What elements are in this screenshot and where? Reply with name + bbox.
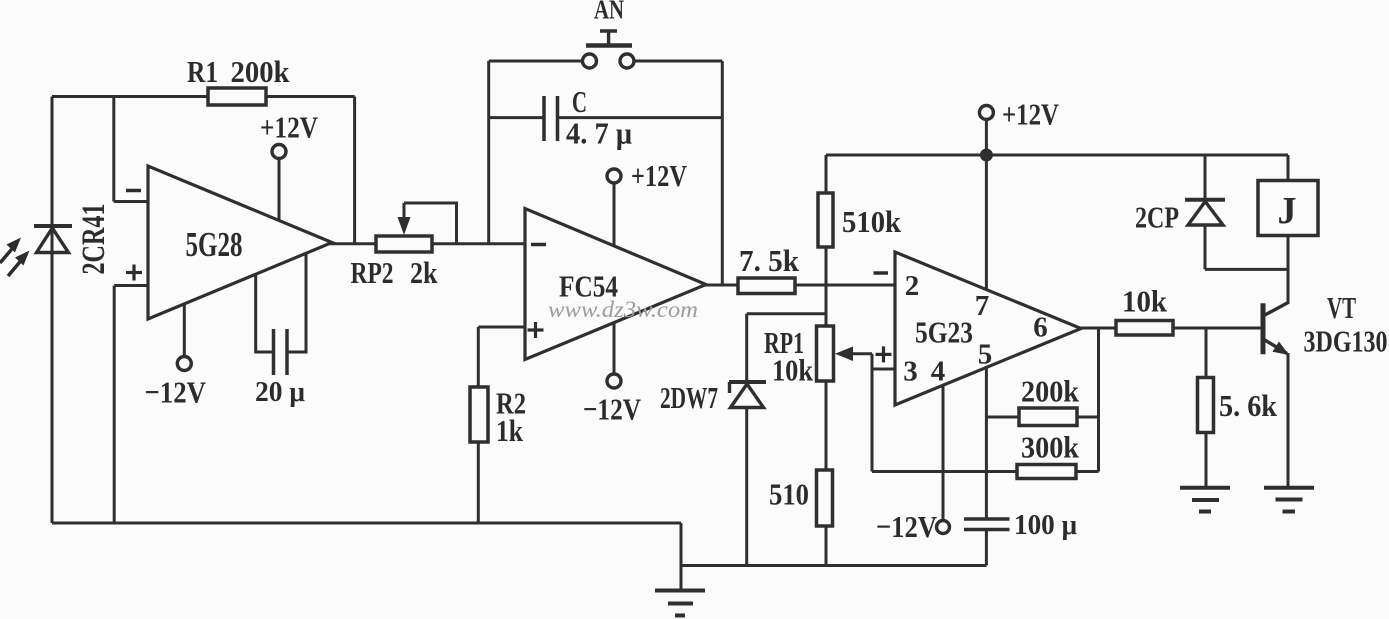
wire: pin3 feedback horizontal y=471.5 [872,470,1017,473]
svg-text:20 μ: 20 μ [255,376,306,408]
ground (emitter) [1264,488,1314,512]
resistor 510k [818,193,833,247]
svg-text:−12V: −12V [876,509,938,544]
op-amp U1 5G28 [148,166,332,319]
capacitor C 4.7u [544,96,558,141]
svg-text:−12V: −12V [145,375,207,410]
svg-text:510: 510 [769,477,809,512]
op-amp U3 5G23 [895,252,1081,405]
wire: FC54 -12V stem [613,322,616,374]
svg-text:5. 6k: 5. 6k [1219,388,1278,423]
wire: 5G28 -12V stem [183,305,186,357]
svg-text:+12V: +12V [1002,97,1059,132]
terminal +12V (FC54) [607,169,621,183]
FC54 minus sign [531,243,546,247]
potentiometer RP2 2k [376,236,432,252]
wire: AN/C loop left vertical x=488.7 [487,61,490,244]
wire: bottom-right ground run y=565.5 [681,564,986,567]
wire: RP1 wiper run to pin3 [850,352,872,355]
wire: FC54 non-inverting input run [478,326,526,329]
wire: emitter vertical x=1288 [1287,353,1290,486]
FC54 plus sign [528,322,544,338]
svg-text:3: 3 [903,356,918,388]
wire: RP2 wiper tie loop [404,203,457,244]
wire: C capacitor row left [489,116,543,119]
RP1 wiper arrow [835,347,853,362]
svg-text:C: C [572,84,587,119]
wire: wiper vertical x=872 [871,354,874,472]
resistor R2 1k [470,387,488,442]
wire: 2CP upper lead [1204,155,1207,199]
wire: 5G23 pin5 vertical [985,368,988,518]
wire: 200k left lead [986,416,1019,419]
svg-text:10k: 10k [1122,284,1168,319]
wire: 2DW7 lower lead [745,407,748,566]
wire: 5G28 output run y=244 [330,242,525,245]
wire: feedback vertical x=1098.5 [1097,328,1100,472]
svg-text:10k: 10k [772,353,814,388]
svg-text:200k: 200k [231,54,291,89]
svg-text:www.dz3w.com: www.dz3w.com [548,297,698,322]
wire: 5G23 pin3 stub [872,368,896,371]
wire: FC54 +12V stem [613,183,616,247]
terminal +12V (5G28) [272,145,286,159]
wire: inverting branch vertical x=113.8 [112,97,115,202]
capacitor 100u [964,519,1010,530]
wire: 5G28 non-inverting input stub [114,284,150,287]
wire: top feedback R1 rail y=96 [52,95,355,98]
wire: 5.6k vertical x=1206 [1205,328,1208,486]
wire: AN top wire left segment [489,60,582,63]
wire: +12V terminal stem [985,120,988,156]
svg-text:300k: 300k [1021,430,1080,465]
photodiode 2CR41 [34,226,72,253]
svg-text:+12V: +12V [260,110,318,145]
resistor 10k [1116,321,1173,336]
svg-text:+12V: +12V [631,158,687,193]
svg-text:1k: 1k [496,413,524,448]
svg-text:510k: 510k [842,204,902,239]
wire: 5G23 pin7 supply vertical [985,155,988,290]
svg-text:2CR41: 2CR41 [76,204,112,275]
5G28 plus sign [126,265,142,281]
wire: 20u capacitor right lead [289,254,307,353]
terminal +12V (rail) [979,106,993,120]
wire: 5G23 pin4 vertical [942,385,945,521]
wire: R2 vertical x=478.3 [477,327,480,523]
terminal -12V (FC54) [607,374,621,388]
svg-text:200k: 200k [1021,374,1080,409]
zener diode 2DW7 [729,382,766,408]
wire: ground drop x=681 [680,523,683,590]
wire: 20u capacitor left lead [256,275,273,353]
wire: 5G23 output run y=328 [1081,327,1263,330]
svg-text:2: 2 [905,270,920,302]
wire: rail drop to relay x=1288 [1287,155,1290,181]
wire: AN top wire right segment [635,60,723,63]
2CR41 light arrows [0,247,22,277]
terminal -12V (5G23 pin4) [937,521,950,534]
wire: non-inverting branch vertical to ground run [113,286,116,524]
resistor 7.5k [738,278,795,294]
wire: AN/C loop right vertical x=722.3 [721,61,724,285]
wire: +12V rail y=155 [826,154,1288,157]
wire: 100u bottom lead [985,531,988,566]
5G23 plus sign [876,346,892,362]
capacitor 20u [274,329,288,375]
svg-text:2DW7: 2DW7 [660,380,718,415]
wire: feedback right vertical x=354.6 [353,97,356,244]
wire: 300k right lead [1076,470,1099,473]
svg-text:7. 5k: 7. 5k [739,243,800,278]
svg-text:R1: R1 [187,54,218,89]
push button AN [583,31,635,68]
potentiometer RP1 10k [817,326,834,381]
svg-text:3DG130: 3DG130 [1304,324,1388,359]
wire: 200k right lead [1077,416,1099,419]
svg-text:2k: 2k [410,255,438,290]
wire: 2DW7 branch horizontal y=313.7 [747,312,826,315]
wire: 2CP bottom link y=269.4 [1205,268,1288,271]
relay J [1258,181,1318,236]
wire: left vertical through photodiode x=52 [51,97,54,524]
svg-text:AN: AN [594,0,624,25]
svg-text:4: 4 [931,356,946,388]
wire: FC54 output run y=285 [705,284,896,287]
svg-text:5: 5 [978,339,993,371]
resistor 5.6k [1198,378,1214,433]
resistor 300k [1017,465,1076,479]
svg-text:4. 7 μ: 4. 7 μ [566,116,632,151]
wire: 2CP lower lead [1204,227,1207,270]
wire: RP1/510 vertical x=826 [825,285,828,566]
svg-text:−12V: −12V [583,392,641,427]
resistor R1 200k [208,88,266,105]
svg-text:J: J [1278,190,1297,232]
svg-text:100 μ: 100 μ [1014,509,1078,541]
wire: 2DW7 upper lead [745,314,748,381]
terminal -12V (5G28) [177,357,191,371]
svg-text:RP2: RP2 [351,255,394,290]
wire: 510k vertical x=826 [825,155,828,285]
wire: C capacitor row right [559,116,722,119]
wire: 5G28 +12V stem [278,158,281,221]
5G28 minus sign [126,189,141,193]
ground (main) [655,591,705,616]
svg-text:5G28: 5G28 [186,225,243,264]
ground (5.6k) [1180,488,1230,512]
wire: 5G28 inverting input stub [114,200,150,203]
5G23 minus sign [874,271,889,275]
svg-text:6: 6 [1033,312,1048,344]
transistor Q1 VT 3DG130 [1263,302,1289,354]
svg-text:7: 7 [975,290,990,322]
svg-text:5G23: 5G23 [915,315,973,350]
junction dot at +12V rail [980,149,993,162]
svg-text:2CP: 2CP [1135,200,1179,235]
wire: relay to collector vertical [1287,236,1290,303]
resistor 510 [817,470,833,526]
op-amp U2 FC54 [525,209,706,360]
svg-text:VT: VT [1327,290,1356,325]
diode 2CP [1185,200,1225,225]
RP2 wiper arrow [403,203,406,223]
wire: bottom-left long ground run y=523 [52,522,681,525]
resistor 200k [1019,408,1077,426]
